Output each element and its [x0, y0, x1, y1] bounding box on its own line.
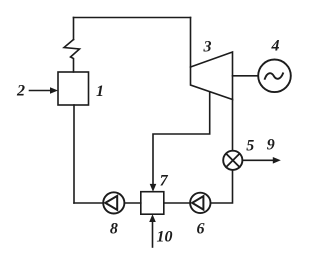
wire feed inlet 10 — [152, 222, 154, 247]
svg-text:8: 8 — [110, 220, 118, 237]
generator 4 — [258, 60, 291, 93]
turbine 3 — [191, 52, 233, 100]
wire left riser upper — [73, 18, 75, 40]
wire top horizontal — [74, 17, 191, 19]
arrowhead extraction into box7 — [150, 184, 157, 192]
wire turbine inlet riser — [190, 18, 192, 68]
boiler box 1 — [58, 72, 89, 105]
svg-text:2: 2 — [16, 83, 25, 100]
svg-text:5: 5 — [246, 137, 254, 154]
wire box7 to pump6 — [164, 202, 190, 204]
svg-text:1: 1 — [96, 83, 104, 100]
arrowhead 10 into box7 — [149, 214, 156, 222]
mixer box 7 — [141, 192, 164, 215]
svg-text:4: 4 — [271, 38, 280, 55]
svg-text:10: 10 — [157, 228, 173, 245]
wire turbine to generator — [233, 75, 259, 77]
pump 6 — [190, 193, 210, 213]
break squiggle on left riser — [64, 40, 80, 73]
arrowhead 9 — [273, 157, 281, 164]
wire extraction: turbine down, left, down into box7 — [153, 92, 210, 186]
svg-text:3: 3 — [203, 39, 212, 56]
wire valve up to turbine exhaust — [232, 100, 234, 151]
svg-text:9: 9 — [267, 136, 275, 153]
wire blowdown arrow 9 shaft — [242, 159, 274, 161]
pump 8 — [103, 192, 124, 213]
wire pump8 to box7 — [124, 202, 140, 204]
arrowhead 2 into box1 — [50, 87, 58, 94]
wire box1 down to bottom pipe — [73, 105, 75, 203]
valve 5 — [223, 151, 242, 170]
svg-text:6: 6 — [197, 220, 205, 237]
wire bottom pipe left segment — [74, 202, 103, 204]
wire pump6 to valve riser — [211, 170, 233, 203]
arrow 2 shaft — [30, 90, 52, 92]
svg-text:7: 7 — [160, 172, 169, 189]
